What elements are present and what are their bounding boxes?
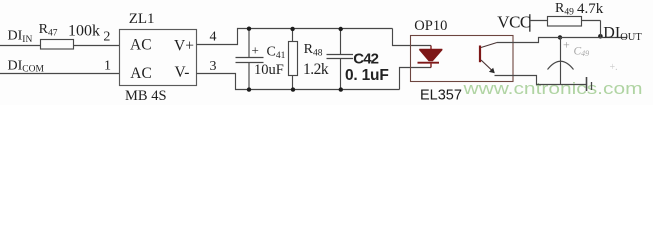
svg-text:EL357: EL357 (420, 88, 462, 104)
svg-text:C49: C49 (574, 45, 590, 58)
svg-text:10uF: 10uF (254, 62, 284, 78)
svg-text:3: 3 (210, 59, 217, 74)
svg-text:+: + (563, 38, 570, 52)
svg-text:C41: C41 (267, 45, 286, 61)
svg-text:V-: V- (175, 64, 190, 81)
svg-text:AC: AC (130, 65, 152, 82)
svg-text:4.7k: 4.7k (577, 1, 604, 17)
svg-text:+: + (252, 42, 259, 57)
svg-text:R47: R47 (39, 22, 58, 38)
svg-text:V+: V+ (174, 37, 194, 54)
svg-text:R49: R49 (555, 1, 574, 17)
svg-text:VCC: VCC (497, 13, 531, 32)
svg-text:DICOM: DICOM (8, 58, 45, 74)
svg-text:ZL1: ZL1 (129, 11, 155, 27)
svg-text:0. 1uF: 0. 1uF (345, 67, 389, 84)
svg-text:DIOUT: DIOUT (603, 25, 642, 43)
svg-text:OP10: OP10 (414, 18, 447, 34)
svg-text:AC: AC (130, 37, 152, 54)
svg-text:+.: +. (610, 62, 618, 73)
svg-text:1.2k: 1.2k (303, 61, 329, 78)
svg-text:1: 1 (104, 59, 111, 74)
svg-text:100k: 100k (68, 23, 100, 40)
svg-text:DIIN: DIIN (8, 29, 33, 45)
svg-text:C42: C42 (353, 50, 378, 67)
svg-text:2: 2 (103, 30, 110, 45)
svg-text:www.cntronics.com: www.cntronics.com (462, 80, 642, 98)
svg-text:R48: R48 (304, 42, 323, 58)
svg-text:MB 4S: MB 4S (125, 88, 167, 104)
svg-text:4: 4 (210, 29, 217, 44)
